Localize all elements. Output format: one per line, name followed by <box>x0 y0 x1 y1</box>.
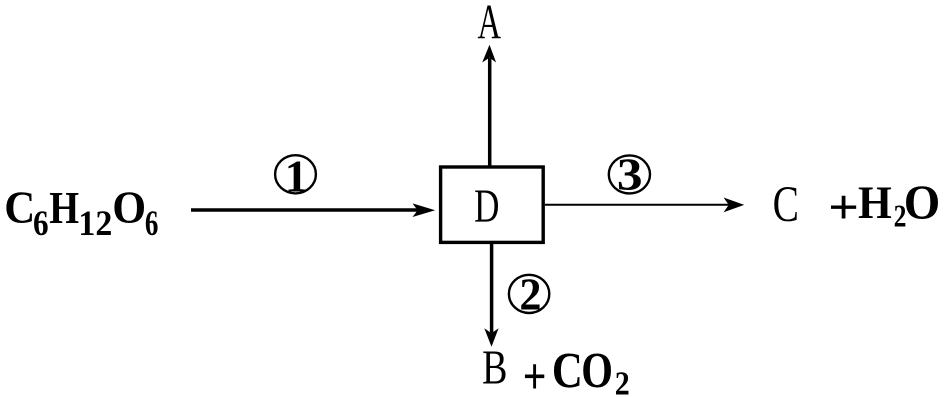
svg-text:O: O <box>904 177 941 230</box>
svg-text:12: 12 <box>78 203 112 243</box>
svg-text:C: C <box>4 182 35 233</box>
svg-text:2: 2 <box>519 269 541 320</box>
svg-text:+: + <box>523 348 547 397</box>
wire down arrow shaft <box>490 243 494 333</box>
svg-text:2: 2 <box>615 365 630 397</box>
svg-text:A: A <box>478 0 502 49</box>
label circled 3 <box>609 149 650 200</box>
arrowhead up <box>482 45 496 63</box>
svg-text:6: 6 <box>33 203 49 243</box>
svg-text:O: O <box>581 343 613 397</box>
svg-text:3: 3 <box>617 149 643 200</box>
wire up arrow shaft <box>488 58 492 166</box>
reactant C6H12O6 <box>4 182 158 244</box>
arrowhead down <box>484 328 498 347</box>
svg-text:H: H <box>49 182 79 233</box>
svg-text:B: B <box>482 341 507 394</box>
svg-text:D: D <box>474 180 499 233</box>
box D <box>441 167 544 242</box>
svg-text:O: O <box>112 182 146 233</box>
wire arrow 3 shaft <box>545 204 730 206</box>
svg-text:C: C <box>773 176 799 232</box>
svg-text:1: 1 <box>285 151 308 202</box>
label circled 1 <box>275 151 316 202</box>
label circled 2 <box>509 269 549 320</box>
svg-text:+: + <box>828 182 859 235</box>
arrowhead of arrow 3 <box>724 198 745 213</box>
product +CO2 <box>523 343 630 397</box>
svg-text:C: C <box>552 343 583 397</box>
product +H2O <box>828 177 940 235</box>
svg-text:6: 6 <box>145 203 159 243</box>
svg-text:H: H <box>858 178 892 229</box>
arrowhead of arrow 1 <box>413 203 436 217</box>
wire arrow 1 shaft <box>191 208 418 212</box>
